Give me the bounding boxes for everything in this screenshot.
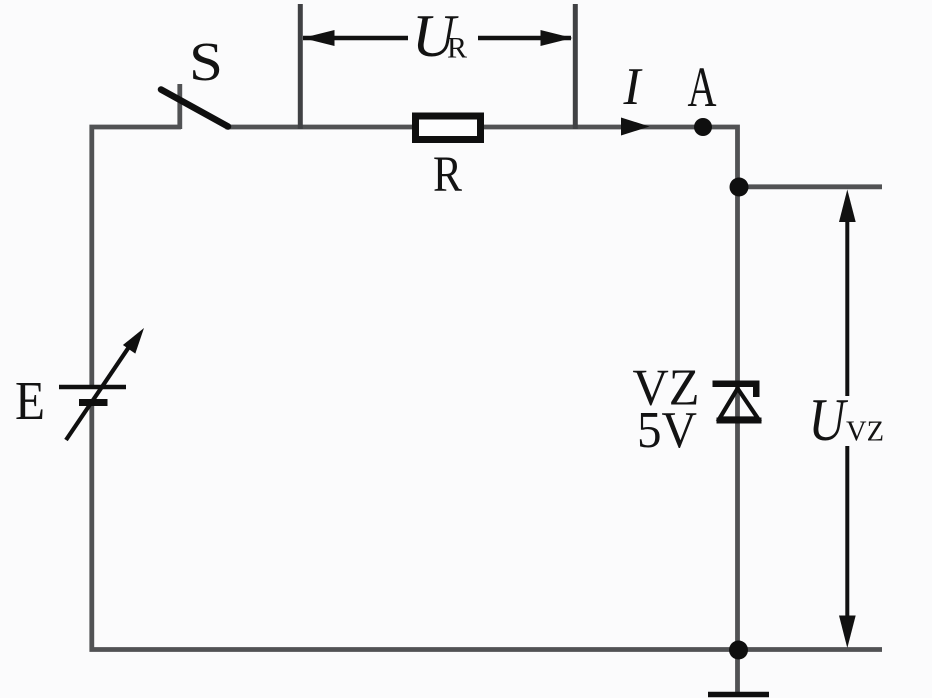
- wire: left vertical below battery, bottom wire to right end: [92, 406, 882, 650]
- battery E long plate: [59, 385, 126, 390]
- zener diode base line: [717, 418, 762, 424]
- U_VZ arrow shaft upper: [845, 215, 849, 396]
- U_VZ bottom arrowhead: [839, 616, 856, 649]
- ground symbol top bar: [708, 692, 769, 698]
- resistor R body: [416, 116, 481, 140]
- U_R dimension arrow shaft: [303, 36, 571, 41]
- wire: top-left segment and left vertical down to battery: [92, 127, 181, 385]
- svg-text:R: R: [447, 32, 467, 65]
- zener diode VZ cathode bar: [713, 381, 760, 388]
- svg-text:A: A: [688, 56, 717, 119]
- svg-text:5V: 5V: [637, 402, 697, 459]
- U_VZ arrow shaft lower: [845, 446, 849, 620]
- junction dot at measurement tap: [730, 178, 749, 197]
- svg-text:E: E: [15, 370, 45, 431]
- zener diode triangle: [720, 389, 759, 419]
- wire: ground stub below bottom node: [735, 650, 740, 692]
- current I arrowhead: [621, 118, 650, 136]
- switch S contact post: [177, 84, 182, 129]
- wire: measurement tap line from junction to right: [738, 184, 883, 189]
- svg-text:VZ: VZ: [846, 416, 884, 448]
- svg-text:R: R: [433, 147, 462, 203]
- measurement bar right (U_R): [573, 4, 578, 129]
- battery E short plate: [79, 399, 108, 406]
- node A dot: [694, 118, 712, 136]
- zener diode right hook: [753, 387, 760, 397]
- bottom junction dot: [729, 641, 748, 660]
- svg-text:S: S: [189, 31, 223, 92]
- wire: top wire right of switch, right vertical branch down: [226, 127, 738, 650]
- measurement bar left (U_R): [298, 4, 303, 129]
- battery E variable arrow shaft: [66, 341, 133, 440]
- U_R right arrowhead: [541, 30, 573, 46]
- svg-text:I: I: [623, 58, 643, 116]
- battery E variable arrowhead: [123, 328, 144, 354]
- U_R left arrowhead: [303, 30, 335, 46]
- switch S blade: [161, 90, 228, 127]
- label U_R background: [408, 8, 478, 62]
- U_VZ top arrowhead: [839, 190, 856, 223]
- svg-text:U: U: [809, 387, 849, 454]
